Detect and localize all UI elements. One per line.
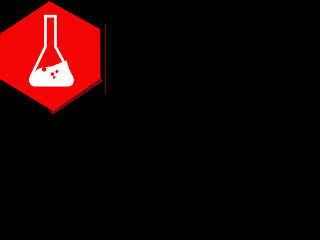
hexagon right ghost edge <box>105 24 106 95</box>
bubble small right <box>55 70 58 73</box>
hexagon bottom-right artifact band <box>51 79 102 114</box>
hexagon badge <box>0 1 101 111</box>
flask liquid <box>30 61 72 85</box>
flask U1 outline <box>30 16 72 85</box>
bubble mid <box>51 72 54 75</box>
bubble big <box>42 67 47 72</box>
bubble small low <box>53 76 56 79</box>
